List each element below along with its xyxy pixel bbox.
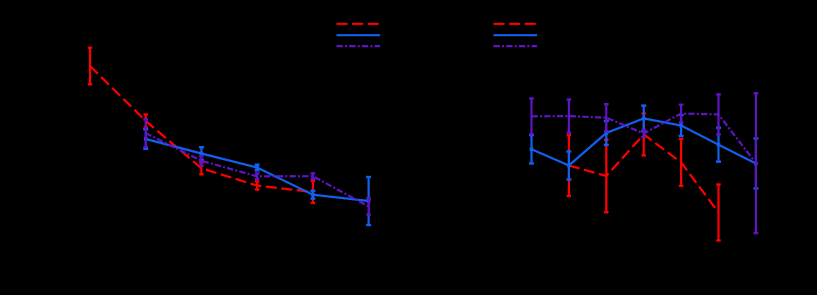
right plot legend purple dash-dot sample [494,45,538,47]
right plot purple dash-dot series error bar 7 [754,93,759,233]
left plot legend blue solid sample [337,34,381,36]
right plot blue solid series error bar 1 [529,135,534,163]
left plot blue solid series markers [144,137,371,203]
right plot blue solid series error bar 2 [566,152,571,180]
left plot blue solid series error bar 5 [366,177,371,225]
left plot legend purple dash-dot sample [337,45,381,47]
right plot blue solid series error bar 4 [641,106,646,132]
right plot purple dash-dot series error bar 6 [716,94,721,134]
left plot blue solid series error bar 2 [199,147,204,160]
right plot red dashed series error bar 2 [604,140,608,212]
right plot red dashed series error bar 3 [642,113,646,155]
left plot red dashed series line [90,66,313,192]
left plot legend red dashed sample [337,23,381,25]
right plot red dashed series error bar 5 [716,185,720,241]
right plot purple dash-dot series error bar 2 [567,100,572,133]
right plot blue solid series error bar 3 [604,121,609,145]
right plot blue solid series error bar 6 [716,128,721,162]
left plot purple dash-dot series error bar 5 [366,198,371,214]
left plot purple dash-dot series line [146,133,369,206]
left plot purple dash-dot series error bar 4 [311,173,316,179]
right plot blue solid series error bar 7 [753,139,758,189]
left plot blue solid series line [146,139,369,201]
right plot blue solid series markers [530,117,758,168]
right plot blue solid series error bar 5 [679,115,684,136]
right plot legend red dashed sample [494,23,538,25]
left plot blue solid series error bar 3 [255,165,260,171]
left plot red dashed series error bar 4 [255,182,259,190]
right plot red dashed series line [569,134,719,212]
left plot purple dash-dot series error bar 2 [199,156,204,166]
left plot red dashed series error bar 5 [311,181,315,203]
left plot blue solid series error bar 1 [143,129,148,149]
left plot red dashed series error bar 1 [88,48,92,85]
right plot red dashed series error bar 1 [567,135,571,196]
right plot purple dash-dot series line [532,114,756,164]
right plot red dashed series error bar 4 [679,139,683,186]
right plot legend blue solid sample [494,34,538,36]
right plot blue solid series line [532,118,756,165]
right plot purple dash-dot series error bar 4 [641,130,646,137]
left plot purple dash-dot series error bar 3 [255,173,260,179]
left plot purple dash-dot series error bar 1 [143,119,148,147]
right plot purple dash-dot series error bar 1 [529,99,534,135]
left plot red dashed series error bar 3 [199,162,203,174]
left plot red dashed series error bar 2 [144,114,148,127]
left plot blue solid series error bar 4 [310,191,315,199]
right plot purple dash-dot series error bar 3 [604,104,609,131]
right plot purple dash-dot series error bar 5 [679,105,684,123]
